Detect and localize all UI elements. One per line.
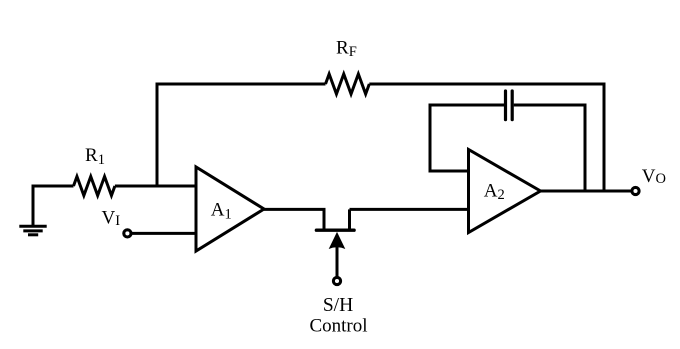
wire RF left segment	[156, 83, 326, 86]
wire A2 output to VO	[541, 190, 632, 193]
resistor R1	[74, 177, 115, 196]
transistor Q1 S/H switch	[316, 209, 354, 230]
svg-text:Control: Control	[309, 315, 367, 336]
label S/H Control	[309, 295, 367, 336]
S/H control terminal	[333, 247, 340, 285]
wire feedback node vertical	[156, 84, 159, 188]
op-amp A2	[469, 150, 541, 233]
capacitor C1	[506, 91, 513, 120]
input terminal VI	[124, 230, 131, 237]
resistor RF	[326, 74, 370, 94]
wire switch to A2 inverting input	[350, 208, 469, 211]
op-amp A1	[196, 167, 264, 251]
gate arrow of Q1	[329, 232, 346, 249]
svg-text:S/H: S/H	[323, 295, 353, 316]
wire capacitor loop right	[514, 105, 585, 191]
wire ground to R1	[32, 185, 74, 188]
wire R1 to A1 noninverting input	[115, 185, 196, 188]
wire RF right segment	[369, 83, 604, 86]
ground	[19, 185, 46, 235]
output terminal VO	[632, 187, 639, 194]
wire A1 output to switch	[264, 208, 326, 211]
wire RF to output vertical	[603, 83, 606, 192]
wire VI to A1 inverting input	[131, 232, 196, 235]
wire capacitor loop left	[430, 105, 504, 171]
